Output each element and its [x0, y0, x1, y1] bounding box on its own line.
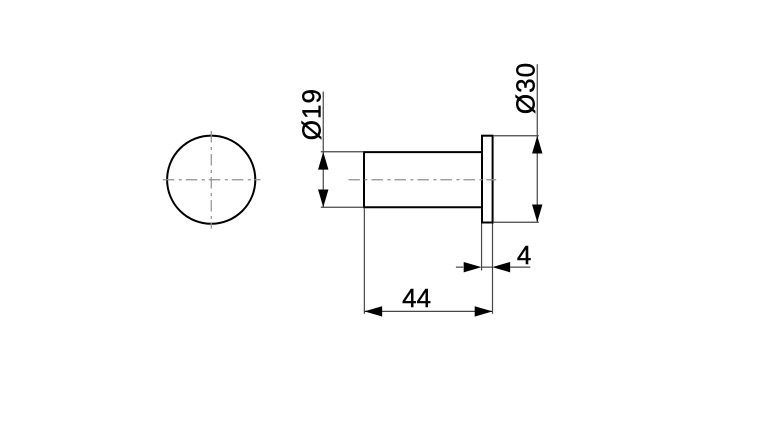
dim Ø19 arrow down [318, 190, 328, 208]
dim 4 dimension line left part [456, 266, 463, 268]
dim Ø30 arrow down [532, 205, 542, 223]
svg-text:4: 4 [517, 240, 531, 270]
dim Ø30 dimension line [536, 64, 538, 222]
dim 44 extension line right [492, 224, 494, 314]
front view horizontal center line [163, 179, 261, 181]
side view: flange outline [482, 136, 493, 223]
dim Ø30 arrow up [532, 136, 542, 154]
front view vertical center line [210, 131, 212, 229]
dim 44 dimension line [364, 310, 492, 312]
front view: circle [167, 136, 255, 224]
dim Ø30 extension line bottom [493, 221, 539, 223]
dim 4 dimension line between extension lines [482, 266, 493, 268]
dim Ø19 extension line top [321, 151, 364, 153]
dim Ø19 extension line bottom [321, 206, 364, 208]
svg-text:Ø30: Ø30 [510, 62, 540, 114]
dim 4 arrow pointing right [464, 262, 482, 272]
dim 44 extension line left [363, 208, 365, 314]
dim Ø30 extension line top [493, 135, 539, 137]
svg-text:44: 44 [402, 283, 431, 313]
side view horizontal center line [348, 179, 496, 181]
dim Ø19 arrow up [318, 152, 328, 170]
dim 44 arrow right [475, 306, 493, 316]
dim 4 extension line left [481, 224, 483, 271]
svg-text:Ø19: Ø19 [296, 88, 326, 140]
dim 4 dimension line right part [510, 266, 530, 268]
dim 44 arrow left [364, 306, 382, 316]
side view: body cylinder outline [364, 152, 483, 207]
dim 4 arrow pointing left [492, 262, 510, 272]
dim Ø19 dimension line [322, 92, 324, 208]
